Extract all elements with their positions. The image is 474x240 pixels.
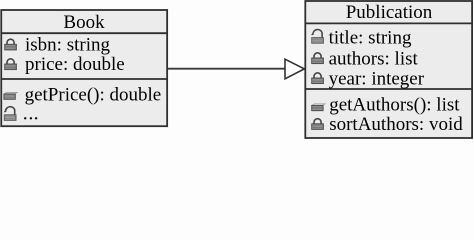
svg-text:Publication: Publication — [346, 2, 433, 23]
class box Publication — [305, 1, 472, 138]
lock icon authors — [312, 53, 324, 64]
slab icon getPrice — [4, 92, 17, 99]
lock icon price — [5, 59, 17, 70]
Book title separator — [1, 32, 167, 34]
lock icon isbn — [5, 39, 17, 50]
method ellipsis — [24, 117, 37, 119]
Publication title separator — [305, 22, 472, 24]
generalization arrow line — [168, 68, 285, 70]
svg-text:year: integer: year: integer — [329, 68, 425, 89]
svg-text:getPrice(): double: getPrice(): double — [25, 85, 162, 106]
lock icon year — [312, 73, 324, 84]
lock icon sortAuthors — [312, 119, 324, 130]
svg-text:sortAuthors: void: sortAuthors: void — [329, 114, 463, 135]
svg-text:authors: list: authors: list — [329, 48, 419, 69]
slab icon getAuthors — [312, 104, 326, 111]
open lock icon ellipsis row — [4, 107, 16, 121]
open lock icon title — [312, 30, 324, 44]
svg-text:getAuthors(): list: getAuthors(): list — [329, 95, 460, 116]
svg-text:Book: Book — [63, 12, 105, 33]
generalization arrow head — [285, 59, 304, 79]
Book attribute/method separator — [1, 78, 167, 80]
svg-text:price: double: price: double — [25, 54, 125, 75]
svg-text:title: string: title: string — [329, 28, 412, 49]
class box Book — [1, 10, 167, 126]
Publication attribute/method separator — [305, 88, 472, 90]
svg-text:isbn: string: isbn: string — [25, 34, 110, 55]
